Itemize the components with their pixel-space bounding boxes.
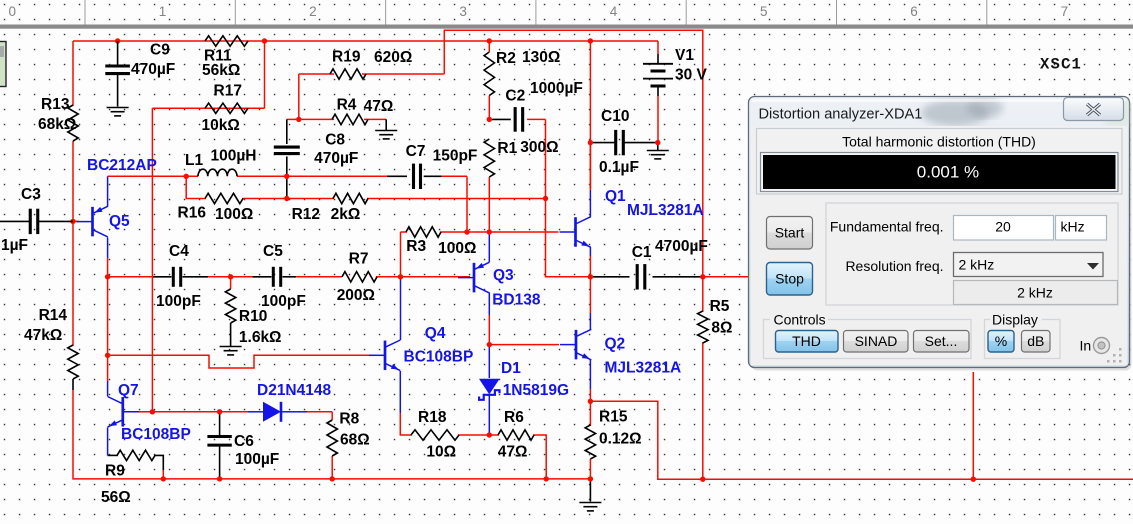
percent button	[988, 331, 1014, 353]
svg-text:BC212AP: BC212AP	[87, 157, 157, 174]
resistor R1	[484, 139, 494, 177]
svg-text:Q2: Q2	[605, 336, 626, 353]
svg-text:Controls: Controls	[774, 312, 826, 328]
junction R7/Q4 collector	[398, 274, 403, 279]
svg-text:30 V: 30 V	[675, 67, 708, 84]
wire R5 column	[702, 277, 704, 312]
component value labels	[1, 42, 732, 507]
svg-text:BC108BP: BC108BP	[121, 426, 191, 443]
wire R10 stem	[230, 277, 232, 289]
svg-text:Start: Start	[775, 225, 805, 241]
wire Q7 base from rail	[138, 411, 153, 413]
Start button	[767, 217, 813, 250]
svg-text:0: 0	[9, 4, 17, 19]
junction C3/Q5 base	[70, 219, 75, 224]
junction R15 top node	[588, 399, 593, 404]
capacitor C10	[614, 130, 617, 155]
resistor R4	[332, 114, 368, 124]
Stop button	[767, 263, 813, 296]
wire Q7 collector riser	[107, 355, 109, 381]
svg-text:100µH: 100µH	[211, 148, 257, 165]
wire Q5 emitter riser	[107, 176, 109, 206]
svg-text:L1: L1	[185, 152, 203, 169]
ground R4	[375, 130, 397, 132]
svg-text:Distortion analyzer-XDA1: Distortion analyzer-XDA1	[759, 107, 923, 123]
dialog close button	[1064, 98, 1124, 121]
wire R18 to R6 row	[458, 434, 499, 436]
svg-text:1µF: 1µF	[1, 237, 28, 254]
junction C10 left	[588, 140, 593, 145]
svg-text:R3: R3	[406, 238, 426, 255]
svg-text:5: 5	[760, 4, 768, 19]
junction R17/R11 node	[262, 38, 267, 43]
svg-text:C1: C1	[632, 244, 652, 261]
resistor R8	[327, 420, 337, 456]
wire R3 left riser	[400, 232, 402, 277]
svg-text:470µF: 470µF	[131, 61, 175, 78]
Resolution freq combo	[954, 253, 1104, 277]
resistor R17	[205, 103, 248, 113]
junction R5 bottom	[700, 477, 705, 482]
wire C5 to R7	[283, 276, 297, 278]
In terminal	[1080, 338, 1110, 354]
diode D2 1N4148	[248, 402, 296, 422]
wire Q1 collector feed	[589, 143, 591, 190]
svg-text:2 kHz: 2 kHz	[959, 257, 995, 273]
wire R14 bottom to ground rail	[72, 379, 74, 390]
svg-text:C7: C7	[406, 143, 426, 160]
wire Q4 emitter drop	[399, 371, 401, 413]
wire D1 cathode drop	[488, 400, 490, 435]
transistor Q7 BC108BP	[108, 397, 139, 428]
svg-text:MJL3281A: MJL3281A	[605, 360, 682, 377]
svg-text:0.1µF: 0.1µF	[599, 159, 639, 176]
wire output to C1	[590, 276, 629, 278]
wire R2 to C2 node	[488, 96, 490, 120]
svg-text:4700µF: 4700µF	[655, 238, 708, 255]
resistor R10	[225, 289, 235, 323]
svg-text:C8: C8	[325, 132, 345, 149]
svg-text:R16: R16	[178, 205, 207, 222]
svg-text:R13: R13	[41, 96, 70, 113]
svg-text:100pF: 100pF	[261, 293, 306, 310]
junction supply column top	[588, 38, 593, 43]
wire R12 row	[287, 198, 334, 200]
ground bottom rail	[579, 502, 601, 504]
wire D2 row	[138, 411, 249, 413]
svg-text:7: 7	[1061, 4, 1069, 19]
junction R9 bottom rail	[161, 476, 166, 481]
svg-text:100µF: 100µF	[235, 451, 279, 468]
capacitor C7	[412, 164, 415, 189]
svg-text:BD138: BD138	[492, 292, 541, 309]
wire Q5 collector column to Q4 base node	[107, 277, 109, 356]
junction C4/C5/R10	[228, 274, 233, 279]
Fundamental freq field	[954, 216, 1054, 241]
wire Q2 emitter drop	[589, 360, 591, 389]
svg-text:R6: R6	[504, 409, 524, 426]
ruler bar	[0, 0, 1133, 29]
wire C6 bottom	[219, 447, 221, 479]
resistor R13	[68, 105, 78, 141]
junction R18/R6/D1	[487, 432, 492, 437]
wire Q3 base lead	[401, 276, 471, 278]
wire C7 feed	[287, 175, 387, 177]
svg-text:kHz: kHz	[1061, 219, 1085, 235]
junction Q4 base node	[105, 353, 110, 358]
svg-text:R15: R15	[599, 409, 628, 426]
wire R2 column top	[488, 41, 490, 52]
wire supply column x590	[589, 41, 591, 189]
svg-text:68kΩ: 68kΩ	[38, 116, 76, 133]
resistor R12	[333, 193, 368, 203]
ground below C10	[647, 150, 669, 152]
parameter group box	[826, 203, 1118, 305]
resistor R5	[698, 311, 708, 343]
wire C7 drop to R3 row	[466, 176, 468, 232]
svg-text:Resolution freq.: Resolution freq.	[845, 258, 943, 274]
svg-text:R5: R5	[710, 298, 730, 315]
partial instrument icon at left edge	[0, 42, 6, 87]
svg-text:130Ω: 130Ω	[522, 49, 560, 66]
wire feedback drop C2/R12 to output	[546, 199, 591, 277]
svg-text:R1: R1	[497, 140, 517, 157]
wire R19 row	[299, 73, 334, 75]
wire Q7 emitter drop	[107, 428, 109, 456]
svg-text:R12: R12	[292, 206, 320, 223]
svg-text:47Ω: 47Ω	[364, 98, 394, 115]
wire C4 to C5	[183, 276, 209, 278]
junction C6 bottom rail	[217, 476, 222, 481]
junction C1 right/R5	[700, 274, 705, 279]
wire C2 branch	[489, 118, 511, 120]
wire Q4 collector riser	[400, 277, 402, 340]
resistor R3	[406, 227, 441, 237]
svg-text:%: %	[995, 333, 1007, 349]
wire R3 row	[401, 231, 408, 233]
wire L1 row y176	[108, 175, 198, 177]
svg-text:dB: dB	[1027, 333, 1044, 349]
svg-text:C5: C5	[263, 243, 283, 260]
wire R16 row y198	[186, 176, 206, 198]
ground below R10	[220, 346, 242, 348]
svg-text:C3: C3	[21, 186, 41, 203]
junction R15 bottom ground	[588, 476, 593, 481]
junction L1 right	[284, 174, 289, 179]
wire C10 right to ground	[623, 142, 658, 144]
resistor R18	[411, 430, 459, 440]
svg-text:XSC1: XSC1	[1040, 56, 1082, 74]
svg-text:470µF: 470µF	[314, 150, 358, 167]
resolution readout box	[954, 281, 1118, 305]
svg-text:R17: R17	[214, 83, 242, 100]
svg-text:Q5: Q5	[109, 213, 130, 230]
svg-text:R2: R2	[496, 50, 516, 67]
capacitor C3	[29, 209, 32, 234]
svg-text:6: 6	[910, 4, 918, 19]
svg-text:Display: Display	[992, 312, 1038, 328]
wire Q3 emitter blue lead	[488, 252, 490, 262]
dialog body	[751, 126, 1128, 366]
resize grip	[1107, 348, 1122, 363]
wire Q2 collector riser	[589, 277, 591, 313]
wire R4 row	[287, 118, 334, 120]
wire Q4 base row with dip	[108, 355, 374, 368]
svg-text:C6: C6	[234, 433, 254, 450]
wire C8 column	[286, 119, 288, 144]
wire bootstrap top y30	[444, 30, 703, 277]
svg-text:R4: R4	[337, 97, 357, 114]
resistor R19	[330, 69, 366, 79]
svg-text:BC108BP: BC108BP	[404, 349, 474, 366]
svg-text:10kΩ: 10kΩ	[202, 117, 240, 134]
junction R2 top	[487, 38, 492, 43]
svg-text:Set...: Set...	[925, 333, 958, 349]
transistor Q1 MJL3281A	[560, 217, 591, 248]
wire Q1 emitter to output node	[589, 247, 591, 256]
svg-text:1000µF: 1000µF	[530, 80, 583, 97]
svg-text:47Ω: 47Ω	[498, 444, 528, 461]
distortion analyzer dialog XDA1	[749, 97, 1132, 371]
junction L1 left	[184, 174, 189, 179]
THD button	[776, 331, 839, 353]
wire C10 left lead	[590, 142, 615, 144]
svg-text:Stop: Stop	[775, 271, 804, 287]
junction R8 bottom rail	[330, 476, 335, 481]
THD group box	[757, 129, 1123, 195]
svg-text:In: In	[1080, 338, 1092, 354]
svg-text:1: 1	[159, 4, 167, 19]
svg-text:Q3: Q3	[493, 267, 514, 284]
wire R17 right riser	[264, 41, 266, 108]
wire Q1 collector blue lead	[589, 190, 591, 217]
svg-text:150pF: 150pF	[433, 148, 478, 165]
svg-text:3: 3	[459, 4, 467, 19]
battery V1	[643, 54, 673, 96]
svg-text:C4: C4	[169, 243, 189, 260]
resistor R16	[205, 193, 243, 203]
wire C3 node to R14 top	[72, 221, 74, 346]
svg-text:R14: R14	[39, 307, 68, 324]
svg-text:D1: D1	[501, 360, 521, 377]
wire long rail x152	[151, 108, 153, 412]
transistor Q3 BD138	[458, 262, 489, 293]
capacitor C8	[274, 146, 300, 149]
svg-text:100Ω: 100Ω	[215, 206, 253, 223]
svg-text:68Ω: 68Ω	[340, 432, 370, 449]
wire output sense run	[590, 401, 1133, 479]
capacitor C5	[272, 267, 275, 287]
junction C2 tap on R2/R1 column	[487, 117, 492, 122]
ground below C9	[107, 107, 129, 109]
wire left rail top segment	[72, 41, 74, 106]
junction R16/R12 node	[284, 196, 289, 201]
resistor R7	[342, 272, 377, 282]
diode D1 1N5819G schottky	[479, 379, 500, 400]
wire C1 right	[653, 276, 703, 278]
svg-text:20: 20	[995, 219, 1011, 235]
svg-text:0.001 %: 0.001 %	[917, 163, 979, 182]
svg-text:56Ω: 56Ω	[101, 489, 131, 506]
svg-text:C10: C10	[601, 108, 629, 125]
svg-text:Fundamental freq.: Fundamental freq.	[830, 219, 944, 235]
junction analyzer input	[971, 477, 976, 482]
svg-text:300Ω: 300Ω	[520, 139, 558, 156]
svg-text:R10: R10	[239, 308, 267, 325]
svg-text:Q1: Q1	[605, 188, 626, 205]
junction C6 top node	[217, 409, 222, 414]
Set button	[914, 331, 970, 353]
capacitor C6	[207, 435, 231, 438]
svg-text:56kΩ: 56kΩ	[202, 62, 240, 79]
svg-text:MJL3281A: MJL3281A	[627, 202, 704, 219]
capacitor C2	[514, 107, 517, 132]
wire R15 column	[589, 401, 591, 426]
junction Q5 collector/C4	[105, 274, 110, 279]
svg-text:Q4: Q4	[425, 325, 446, 342]
kHz unit field	[1056, 216, 1107, 241]
junction feedback node	[543, 196, 548, 201]
capacitor C9	[105, 64, 130, 67]
resistor R11	[205, 36, 248, 46]
wire R8 drop	[331, 412, 333, 420]
wire C6 top	[219, 412, 221, 435]
svg-text:THD: THD	[792, 333, 821, 349]
THD readout display	[761, 153, 1119, 192]
svg-text:8Ω: 8Ω	[711, 320, 732, 337]
wire R7 to Q4 collector node	[376, 276, 401, 278]
wire R15 ground stem	[589, 479, 591, 502]
SINAD button	[844, 331, 909, 353]
svg-text:Total harmonic distortion (THD: Total harmonic distortion (THD)	[842, 134, 1036, 150]
svg-text:4: 4	[610, 4, 618, 19]
wire R9 right corner	[154, 455, 163, 470]
transistor Q5 BC212AP	[77, 206, 108, 237]
wire Q5 collector drop	[107, 238, 109, 259]
junction output node	[588, 274, 593, 279]
wire Q3 emitter riser	[488, 232, 490, 252]
svg-text:V1: V1	[675, 47, 694, 64]
svg-text:C9: C9	[150, 42, 170, 59]
svg-text:R7: R7	[349, 251, 369, 268]
transistor Q2 MJL3281A	[560, 329, 591, 360]
svg-text:620Ω: 620Ω	[374, 49, 412, 66]
svg-text:1N5819G: 1N5819G	[503, 382, 569, 399]
svg-text:R8: R8	[339, 411, 359, 428]
svg-text:2 kHz: 2 kHz	[1017, 285, 1053, 301]
svg-text:47kΩ: 47kΩ	[24, 327, 62, 344]
svg-text:R9: R9	[105, 463, 125, 480]
wire C2 right riser	[545, 119, 547, 198]
device name labels	[87, 157, 704, 443]
wire R4 ground stem	[385, 119, 387, 130]
svg-text:2: 2	[309, 4, 317, 19]
svg-text:SINAD: SINAD	[855, 333, 898, 349]
svg-text:200Ω: 200Ω	[337, 287, 375, 304]
svg-text:R19: R19	[332, 49, 361, 66]
wire R17 row	[152, 107, 264, 109]
inductor L1	[198, 169, 237, 176]
Controls group box	[764, 311, 972, 359]
svg-text:0.12Ω: 0.12Ω	[599, 431, 642, 448]
wire top supply rail y41	[73, 40, 658, 42]
wire Q5 base stub	[73, 220, 79, 222]
resistor R2	[484, 52, 494, 96]
resistor R6	[498, 430, 534, 440]
wire V1 minus to ground node	[657, 96, 659, 143]
junction C7/R3	[464, 229, 469, 234]
wire R6 right corner	[533, 435, 546, 479]
wire R1 bottom drop	[488, 177, 490, 232]
svg-text:1.6kΩ: 1.6kΩ	[239, 329, 282, 346]
resistor R14	[68, 345, 78, 379]
wire Q3 collector to Q2 base node	[488, 293, 490, 316]
wire D1 anode	[488, 345, 490, 378]
capacitor C1	[636, 264, 639, 289]
junction R1/Q3 emitter	[487, 229, 492, 234]
junction R6 bottom rail	[544, 476, 549, 481]
junction C10 right ground	[655, 140, 660, 145]
wire V1 plus drop	[657, 41, 659, 54]
wire R13 bottom to C3 node	[72, 141, 74, 221]
junction Q7 base node	[150, 409, 155, 414]
dB button	[1022, 331, 1051, 353]
wire R9 lead left	[108, 454, 118, 456]
wire R19 left riser	[298, 74, 300, 119]
svg-text:100pF: 100pF	[156, 293, 201, 310]
resistor R9	[117, 450, 155, 460]
svg-text:C2: C2	[505, 88, 525, 105]
transistor Q4 BC108BP	[369, 340, 400, 371]
Display group box	[985, 311, 1061, 359]
wire R3 to Q1 base	[467, 231, 559, 233]
svg-text:10Ω: 10Ω	[426, 444, 456, 461]
wire C1 node to analyzer	[703, 276, 749, 278]
wire Q2 base row	[489, 344, 559, 346]
wire analyzer input drop	[972, 372, 974, 479]
capacitor C4	[172, 267, 175, 287]
svg-text:R18: R18	[418, 409, 447, 426]
junction C8 top node	[296, 117, 301, 122]
svg-text:2kΩ: 2kΩ	[331, 206, 361, 223]
svg-text:D21N4148: D21N4148	[257, 382, 331, 399]
svg-text:Q7: Q7	[118, 382, 139, 399]
svg-text:100Ω: 100Ω	[438, 240, 476, 257]
junction Q2 base node	[487, 342, 492, 347]
resistor R15	[585, 425, 595, 459]
junction C9 top	[115, 38, 120, 43]
wire main output row left	[108, 276, 153, 278]
